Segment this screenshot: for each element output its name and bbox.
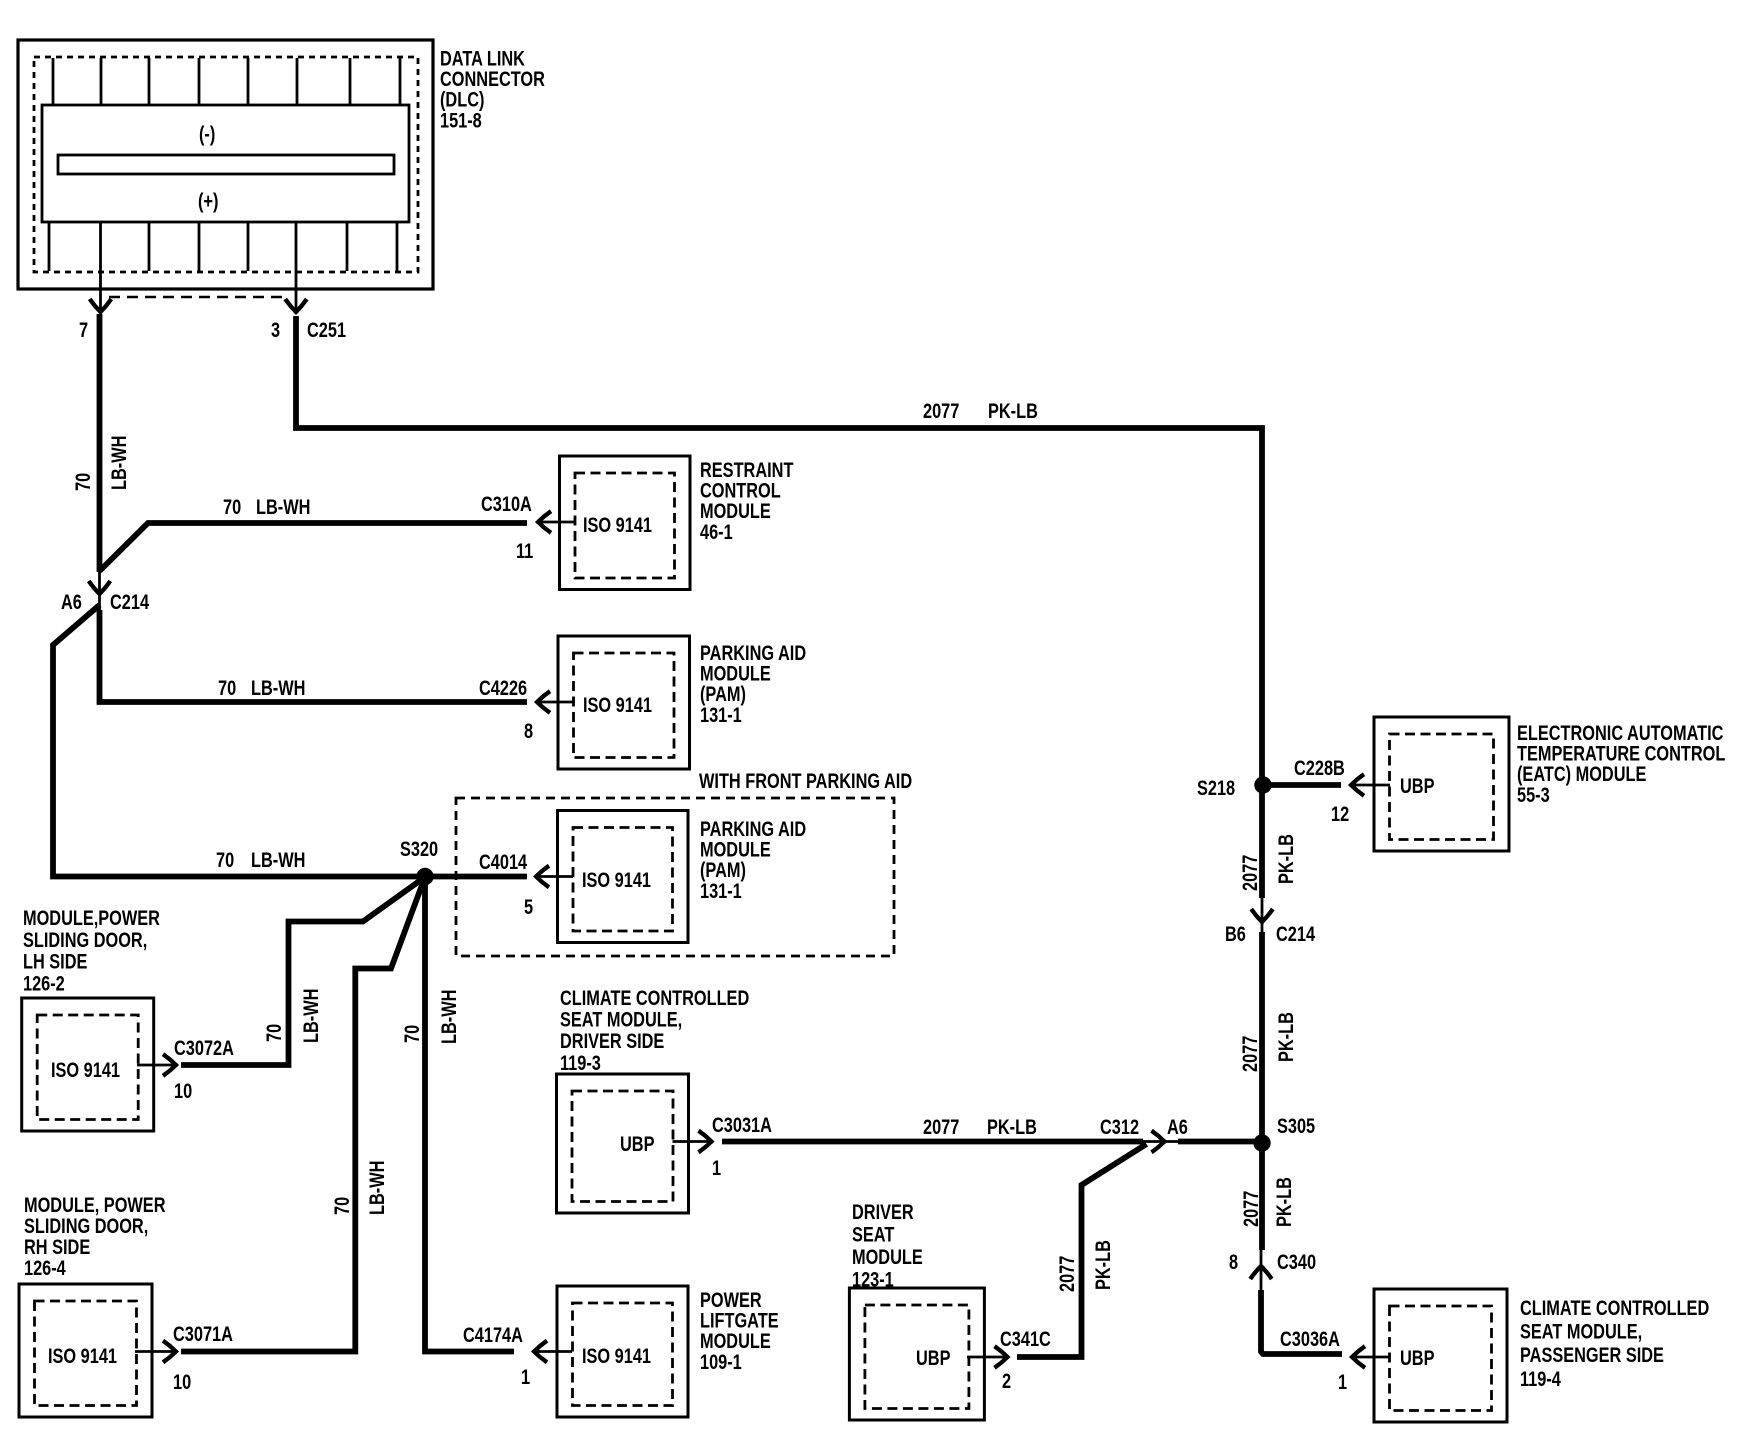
- svg-text:PK-LB: PK-LB: [1275, 1012, 1299, 1062]
- svg-text:A6: A6: [61, 591, 82, 615]
- svg-text:70: 70: [218, 677, 236, 701]
- svg-text:2077: 2077: [923, 400, 959, 424]
- svg-text:ISO 9141: ISO 9141: [582, 1345, 651, 1369]
- svg-text:DRIVER: DRIVER: [852, 1201, 914, 1225]
- svg-text:123-1: 123-1: [852, 1268, 894, 1292]
- svg-text:DRIVER SIDE: DRIVER SIDE: [560, 1030, 664, 1054]
- svg-text:PK-LB: PK-LB: [1092, 1240, 1116, 1290]
- svg-text:C3036A: C3036A: [1280, 1328, 1340, 1352]
- svg-text:12: 12: [1331, 803, 1349, 827]
- svg-text:UBP: UBP: [1400, 1347, 1435, 1371]
- svg-text:C340: C340: [1277, 1251, 1316, 1275]
- svg-text:70: 70: [72, 473, 96, 491]
- svg-text:11: 11: [516, 540, 534, 564]
- svg-text:WITH FRONT PARKING AID: WITH FRONT PARKING AID: [699, 770, 912, 794]
- svg-text:SLIDING DOOR,: SLIDING DOOR,: [23, 929, 147, 953]
- svg-text:126-2: 126-2: [23, 972, 65, 996]
- svg-text:8: 8: [524, 720, 533, 744]
- svg-text:131-1: 131-1: [700, 880, 742, 904]
- svg-text:MODULE: MODULE: [852, 1246, 923, 1270]
- svg-text:UBP: UBP: [620, 1133, 655, 1157]
- svg-text:1: 1: [521, 1366, 530, 1390]
- svg-text:C214: C214: [110, 591, 149, 615]
- svg-text:LB-WH: LB-WH: [366, 1161, 390, 1215]
- svg-text:B6: B6: [1225, 923, 1246, 947]
- svg-text:SEAT MODULE,: SEAT MODULE,: [1520, 1321, 1642, 1345]
- svg-text:70: 70: [401, 1025, 425, 1043]
- svg-text:C251: C251: [307, 319, 346, 343]
- svg-text:C341C: C341C: [1000, 1328, 1051, 1352]
- svg-text:C214: C214: [1276, 923, 1315, 947]
- svg-text:LB-WH: LB-WH: [251, 849, 305, 873]
- svg-text:LH SIDE: LH SIDE: [23, 951, 87, 975]
- svg-text:2077: 2077: [1056, 1256, 1080, 1292]
- svg-text:PK-LB: PK-LB: [988, 400, 1038, 424]
- svg-text:2077: 2077: [1239, 1036, 1263, 1072]
- svg-text:7: 7: [79, 319, 88, 343]
- svg-text:ISO 9141: ISO 9141: [582, 869, 651, 893]
- svg-text:PASSENGER SIDE: PASSENGER SIDE: [1520, 1344, 1664, 1368]
- svg-text:2077: 2077: [1240, 1191, 1264, 1227]
- svg-text:2077: 2077: [923, 1116, 959, 1140]
- svg-text:70: 70: [223, 496, 241, 520]
- svg-text:1: 1: [1338, 1371, 1347, 1395]
- svg-text:70: 70: [263, 1024, 287, 1042]
- svg-text:PK-LB: PK-LB: [987, 1116, 1037, 1140]
- svg-text:2: 2: [1002, 1370, 1011, 1394]
- svg-text:S305: S305: [1277, 1115, 1315, 1139]
- svg-text:ISO 9141: ISO 9141: [583, 694, 652, 718]
- svg-text:ISO 9141: ISO 9141: [583, 514, 652, 538]
- svg-text:ISO 9141: ISO 9141: [48, 1345, 117, 1369]
- svg-text:C4226: C4226: [479, 677, 527, 701]
- svg-text:109-1: 109-1: [700, 1351, 742, 1375]
- svg-text:SEAT MODULE,: SEAT MODULE,: [560, 1009, 682, 1033]
- svg-text:C4014: C4014: [479, 851, 527, 875]
- svg-text:CLIMATE CONTROLLED: CLIMATE CONTROLLED: [1520, 1297, 1709, 1321]
- svg-text:70: 70: [331, 1197, 355, 1215]
- svg-text:8: 8: [1229, 1251, 1238, 1275]
- svg-text:C310A: C310A: [481, 493, 532, 517]
- svg-text:C3072A: C3072A: [174, 1037, 234, 1061]
- svg-text:C4174A: C4174A: [463, 1324, 523, 1348]
- svg-text:(-): (-): [199, 123, 215, 147]
- svg-text:S320: S320: [400, 838, 438, 862]
- svg-text:UBP: UBP: [916, 1347, 951, 1371]
- svg-text:119-3: 119-3: [560, 1052, 601, 1076]
- svg-text:10: 10: [174, 1080, 192, 1104]
- svg-text:ISO 9141: ISO 9141: [51, 1059, 120, 1083]
- svg-text:LB-WH: LB-WH: [300, 989, 324, 1043]
- svg-text:126-4: 126-4: [24, 1257, 66, 1281]
- svg-text:1: 1: [712, 1157, 721, 1181]
- svg-text:A6: A6: [1167, 1116, 1188, 1140]
- svg-text:C228B: C228B: [1294, 757, 1345, 781]
- svg-text:MODULE,POWER: MODULE,POWER: [23, 907, 160, 931]
- svg-text:LB-WH: LB-WH: [251, 677, 305, 701]
- svg-text:LB-WH: LB-WH: [108, 436, 132, 490]
- svg-text:C3031A: C3031A: [712, 1114, 772, 1138]
- svg-text:PK-LB: PK-LB: [1275, 834, 1299, 884]
- svg-text:70: 70: [216, 849, 234, 873]
- svg-text:10: 10: [173, 1371, 191, 1395]
- svg-text:S218: S218: [1197, 777, 1235, 801]
- svg-text:C3071A: C3071A: [173, 1323, 233, 1347]
- svg-text:LB-WH: LB-WH: [438, 990, 462, 1044]
- svg-text:PK-LB: PK-LB: [1273, 1177, 1297, 1227]
- svg-text:C312: C312: [1100, 1116, 1139, 1140]
- svg-text:151-8: 151-8: [440, 109, 482, 133]
- svg-text:119-4: 119-4: [1520, 1368, 1561, 1392]
- svg-text:CLIMATE CONTROLLED: CLIMATE CONTROLLED: [560, 987, 749, 1011]
- svg-text:UBP: UBP: [1400, 775, 1435, 799]
- svg-text:5: 5: [524, 896, 533, 920]
- svg-text:LB-WH: LB-WH: [256, 496, 310, 520]
- svg-text:2077: 2077: [1239, 855, 1263, 891]
- svg-text:SEAT: SEAT: [852, 1223, 895, 1247]
- svg-text:3: 3: [271, 319, 280, 343]
- svg-text:131-1: 131-1: [700, 704, 742, 728]
- svg-text:(+): (+): [198, 190, 218, 214]
- svg-text:55-3: 55-3: [1517, 784, 1550, 808]
- svg-text:46-1: 46-1: [700, 521, 733, 545]
